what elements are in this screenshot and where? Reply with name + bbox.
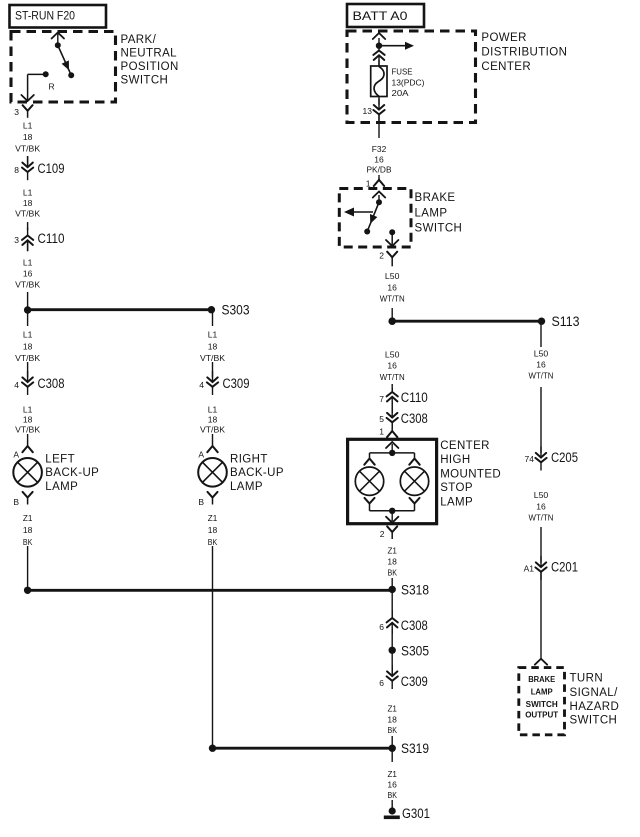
svg-text:ST-RUN F20: ST-RUN F20 (15, 11, 75, 23)
svg-text:Z1: Z1 (387, 546, 397, 556)
svg-text:Z1: Z1 (208, 513, 218, 523)
svg-text:VT/BK: VT/BK (15, 353, 40, 363)
svg-text:WT/TN: WT/TN (380, 372, 405, 382)
svg-text:S303: S303 (222, 303, 250, 318)
svg-text:NEUTRAL: NEUTRAL (121, 47, 178, 59)
svg-text:18: 18 (23, 341, 33, 351)
svg-text:SWITCH: SWITCH (415, 223, 463, 235)
svg-text:BK: BK (23, 537, 33, 547)
svg-text:2: 2 (380, 529, 385, 539)
svg-text:WT/TN: WT/TN (529, 371, 554, 381)
svg-text:13(PDC): 13(PDC) (392, 78, 425, 88)
svg-text:RIGHT: RIGHT (230, 453, 268, 465)
svg-text:L1: L1 (23, 404, 33, 414)
svg-text:LEFT: LEFT (45, 453, 75, 465)
svg-text:BACK-UP: BACK-UP (45, 467, 99, 479)
svg-text:C110: C110 (38, 231, 65, 246)
svg-text:C308: C308 (401, 411, 428, 426)
svg-text:L1: L1 (23, 188, 33, 198)
svg-text:MOUNTED: MOUNTED (440, 468, 501, 480)
svg-text:18: 18 (387, 557, 397, 567)
svg-text:B: B (13, 497, 19, 507)
svg-text:DISTRIBUTION: DISTRIBUTION (481, 47, 567, 59)
svg-text:BK: BK (387, 568, 397, 578)
svg-text:6: 6 (379, 678, 384, 688)
svg-text:TURN: TURN (570, 672, 604, 684)
svg-text:VT/BK: VT/BK (200, 353, 225, 363)
svg-text:L1: L1 (23, 258, 33, 268)
svg-text:C201: C201 (551, 560, 578, 575)
svg-text:C109: C109 (38, 161, 65, 176)
svg-text:16: 16 (387, 780, 397, 790)
svg-text:HIGH: HIGH (440, 454, 470, 466)
svg-text:16: 16 (536, 501, 546, 511)
svg-text:S113: S113 (552, 314, 580, 329)
svg-text:VT/BK: VT/BK (15, 209, 40, 219)
svg-text:BK: BK (387, 790, 397, 800)
svg-text:VT/BK: VT/BK (15, 280, 40, 290)
svg-text:B: B (198, 497, 204, 507)
svg-text:16: 16 (536, 360, 546, 370)
svg-text:C110: C110 (401, 390, 428, 405)
svg-text:SWITCH: SWITCH (570, 715, 618, 727)
svg-text:PK/DB: PK/DB (367, 165, 392, 175)
svg-text:LAMP: LAMP (415, 207, 448, 219)
svg-text:L1: L1 (208, 330, 218, 340)
svg-text:Z1: Z1 (387, 769, 397, 779)
svg-text:L50: L50 (385, 271, 400, 281)
svg-text:R: R (49, 82, 55, 92)
svg-text:VT/BK: VT/BK (15, 425, 40, 435)
svg-text:Z1: Z1 (387, 704, 397, 714)
svg-text:4: 4 (199, 380, 204, 390)
svg-text:18: 18 (208, 415, 218, 425)
svg-text:BK: BK (387, 725, 397, 735)
svg-text:2: 2 (379, 251, 384, 261)
svg-text:SWITCH: SWITCH (121, 74, 169, 86)
svg-text:VT/BK: VT/BK (15, 144, 40, 154)
svg-text:6: 6 (379, 622, 384, 632)
svg-text:20A: 20A (392, 88, 409, 98)
svg-text:WT/TN: WT/TN (380, 294, 405, 304)
svg-text:LAMP: LAMP (45, 481, 78, 493)
svg-text:16: 16 (23, 269, 33, 279)
svg-text:POSITION: POSITION (121, 61, 179, 73)
svg-text:1: 1 (379, 427, 384, 437)
svg-text:VT/BK: VT/BK (200, 425, 225, 435)
svg-text:13: 13 (363, 106, 373, 116)
svg-text:A: A (198, 450, 204, 460)
svg-text:BK: BK (208, 537, 218, 547)
svg-text:C308: C308 (401, 618, 428, 633)
svg-text:18: 18 (208, 341, 218, 351)
svg-text:C308: C308 (38, 376, 65, 391)
svg-text:CENTER: CENTER (440, 440, 490, 452)
svg-text:18: 18 (23, 415, 33, 425)
svg-text:8: 8 (14, 165, 19, 175)
svg-text:OUTPUT: OUTPUT (525, 711, 558, 720)
svg-text:L1: L1 (23, 330, 33, 340)
svg-text:18: 18 (208, 525, 218, 535)
svg-text:C205: C205 (551, 450, 578, 465)
svg-text:PARK/: PARK/ (121, 34, 157, 46)
svg-text:S318: S318 (401, 583, 429, 598)
svg-text:C309: C309 (223, 376, 250, 391)
svg-text:SWITCH: SWITCH (526, 700, 558, 709)
svg-text:5: 5 (379, 414, 384, 424)
svg-text:3: 3 (14, 235, 19, 245)
svg-text:L50: L50 (534, 490, 549, 500)
svg-text:FUSE: FUSE (392, 67, 413, 77)
svg-text:S319: S319 (401, 741, 429, 756)
svg-text:BACK-UP: BACK-UP (230, 467, 284, 479)
svg-text:S305: S305 (401, 644, 429, 659)
svg-text:7: 7 (379, 394, 384, 404)
svg-text:SIGNAL/: SIGNAL/ (570, 687, 619, 699)
svg-text:4: 4 (14, 380, 19, 390)
svg-text:Z1: Z1 (23, 513, 33, 523)
svg-text:WT/TN: WT/TN (529, 513, 554, 523)
svg-text:C309: C309 (401, 674, 428, 689)
svg-text:HAZARD: HAZARD (570, 701, 620, 713)
svg-text:BRAKE: BRAKE (415, 192, 456, 204)
svg-text:16: 16 (374, 154, 384, 164)
svg-text:A1: A1 (524, 564, 535, 574)
svg-text:BATT A0: BATT A0 (353, 9, 408, 23)
svg-text:16: 16 (387, 282, 397, 292)
svg-text:CENTER: CENTER (481, 61, 531, 73)
svg-text:LAMP: LAMP (230, 481, 263, 493)
svg-text:G301: G301 (402, 806, 430, 821)
svg-text:18: 18 (23, 132, 33, 142)
svg-text:18: 18 (23, 198, 33, 208)
svg-text:74: 74 (525, 454, 535, 464)
svg-text:L1: L1 (23, 121, 33, 131)
svg-text:LAMP: LAMP (531, 688, 554, 697)
svg-text:F32: F32 (372, 144, 387, 154)
svg-text:STOP: STOP (440, 482, 473, 494)
svg-text:A: A (13, 450, 19, 460)
svg-text:L50: L50 (385, 350, 400, 360)
svg-text:L1: L1 (208, 404, 218, 414)
svg-text:18: 18 (23, 525, 33, 535)
svg-text:16: 16 (387, 361, 397, 371)
svg-text:18: 18 (387, 714, 397, 724)
svg-text:BRAKE: BRAKE (528, 675, 556, 684)
svg-text:LAMP: LAMP (440, 496, 473, 508)
svg-text:L50: L50 (534, 349, 549, 359)
svg-text:POWER: POWER (481, 32, 526, 44)
svg-text:3: 3 (14, 107, 19, 117)
